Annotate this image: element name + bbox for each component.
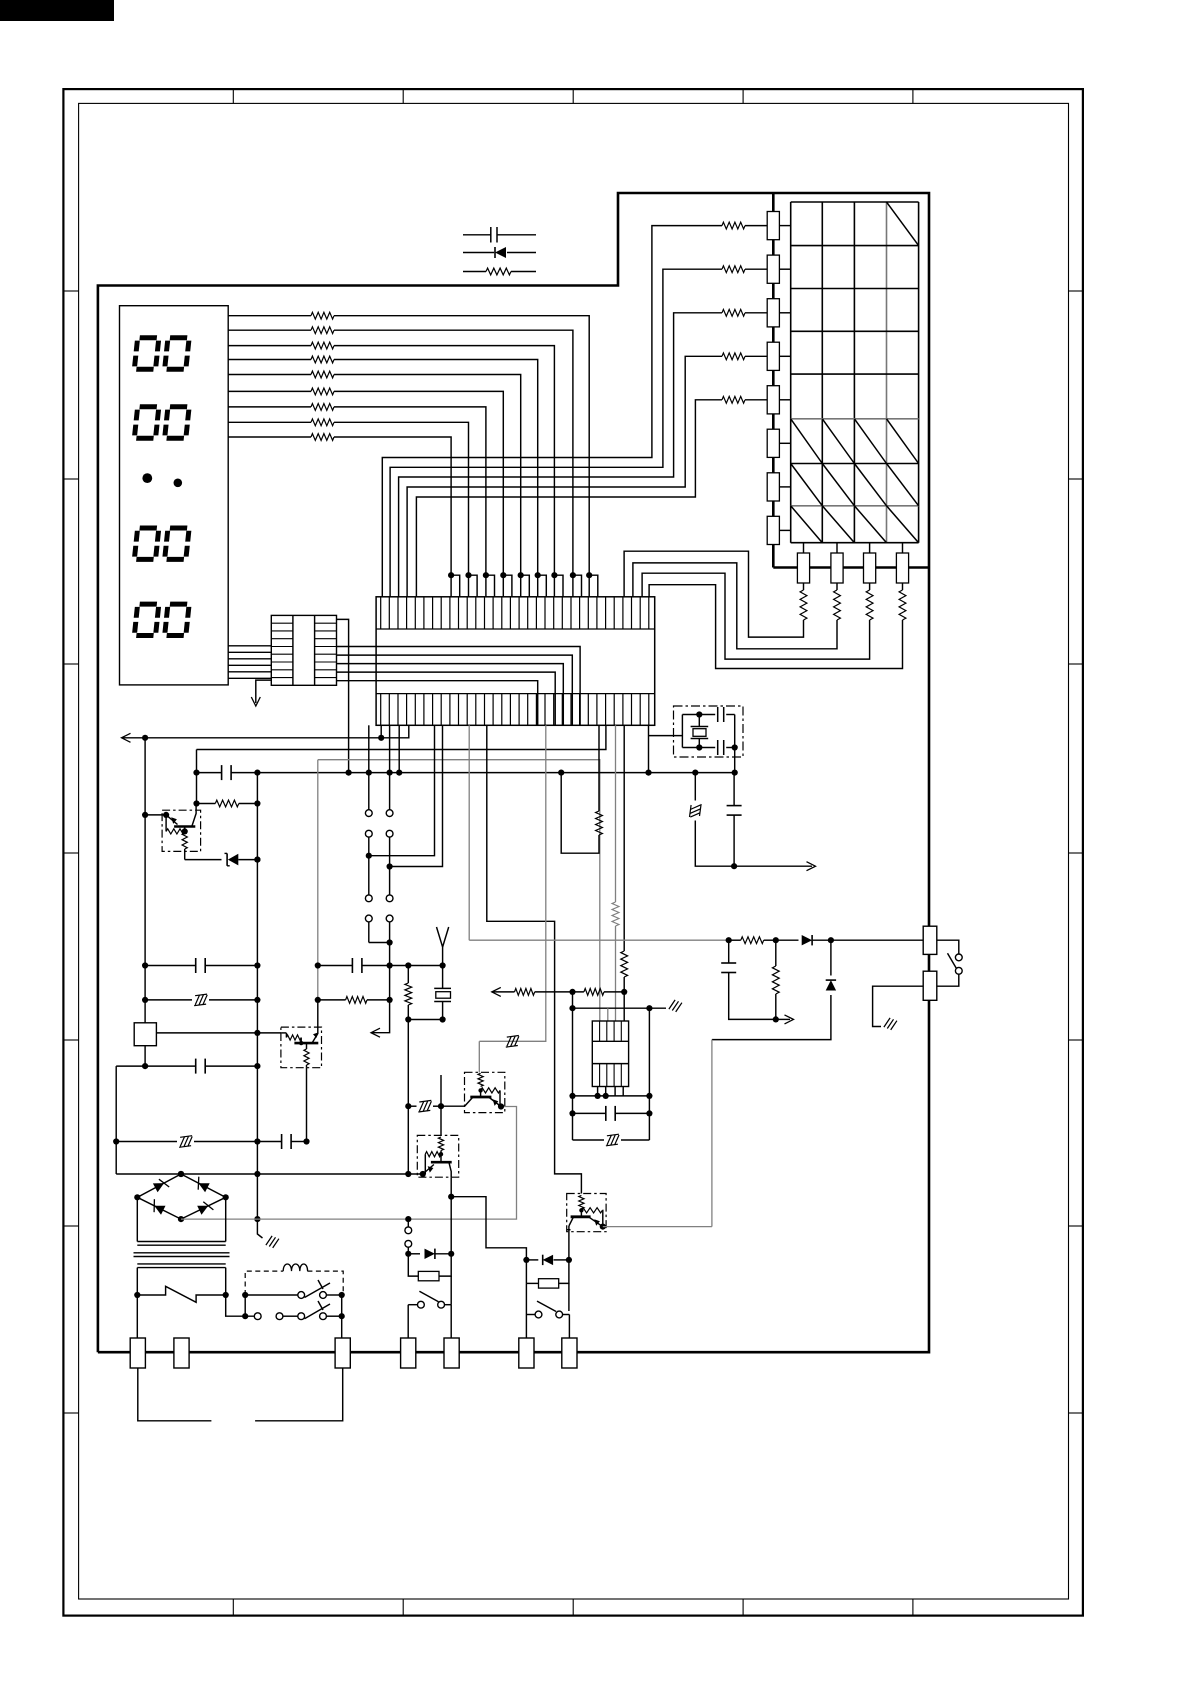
wire key row 3 with resistor R22 bbox=[745, 312, 767, 314]
wire U2 outputs to U1 bbox=[337, 647, 581, 726]
key column resistor box CB4 bbox=[896, 553, 908, 583]
wire U1 pin down x433 to switch col1 bbox=[369, 725, 435, 855]
wire U1 pin down x389 bbox=[389, 725, 391, 809]
connector contacts column1 bbox=[365, 810, 372, 817]
door switch SW3 bbox=[408, 1304, 417, 1306]
wire segment line 2 with resistor R11 bbox=[228, 329, 311, 331]
wire segment line 3 with resistor R12 bbox=[228, 345, 311, 347]
wire segment line 1 with resistor R10 bbox=[228, 315, 311, 317]
wire Q4 emitter down bbox=[568, 1226, 570, 1260]
resistor R6 bbox=[318, 999, 346, 1001]
IC U2 pin columns bbox=[292, 615, 294, 685]
wire U1 pin x615 resistor R41 bbox=[615, 725, 617, 902]
resistor R5 bbox=[197, 803, 216, 805]
node junction J4 on segment line bbox=[535, 572, 541, 578]
transistor Q4 element bbox=[579, 1195, 584, 1208]
IC U3 box bbox=[134, 1023, 156, 1046]
key matrix grid bbox=[791, 202, 919, 543]
wire key column 2 stub bbox=[836, 543, 838, 553]
connector pin CN6 bbox=[519, 1338, 534, 1368]
ground G3 below rail RR bbox=[257, 1219, 262, 1238]
wire X1 bottom with capacitor C12 bbox=[682, 747, 715, 749]
zener diode D1 bbox=[185, 859, 222, 861]
diode D4 bbox=[802, 935, 812, 945]
IC U4 pin hatching bbox=[600, 1021, 622, 1087]
wire arrow right2 bbox=[734, 865, 812, 867]
wire rail y1174 bbox=[116, 1173, 423, 1175]
ground arrow below U2 bbox=[256, 680, 271, 703]
legend capacitor symbol bbox=[463, 234, 491, 236]
capacitor C8 branch bbox=[733, 773, 735, 806]
wire box 2 to grid bbox=[779, 268, 790, 270]
wire key row 1 with resistor R20 bbox=[745, 225, 767, 227]
wire U2 top output to bus bbox=[337, 619, 349, 772]
node bus B4 junction x561 bbox=[558, 770, 564, 776]
wire IC2 top stub x607 bbox=[607, 1008, 609, 1021]
wire IRQ bus with input arrow bbox=[122, 733, 131, 742]
node bus B4 junction x399 bbox=[396, 770, 402, 776]
node junction J7 on segment line bbox=[483, 572, 489, 578]
transistor Q1 dash-dot box bbox=[162, 810, 201, 851]
varistor RV3 bbox=[116, 1141, 177, 1143]
wire U4 net top bbox=[573, 1095, 650, 1097]
transistor Q3 dash-dot box bbox=[465, 1072, 505, 1112]
key row resistor box RB8 bbox=[767, 516, 779, 544]
connector pin CN5 bbox=[444, 1338, 459, 1368]
wire U1 pin x624 resistor R42 bbox=[623, 725, 625, 951]
capacitor C7 branch bbox=[728, 940, 730, 963]
connector CN8 box bbox=[923, 926, 937, 954]
border frame inner bbox=[79, 103, 1069, 1599]
key matrix diagonals bbox=[791, 202, 919, 543]
wire F1 to interlock row2 bbox=[226, 1295, 255, 1316]
node junction J6 on segment line bbox=[500, 572, 506, 578]
wire bus B2 bbox=[197, 725, 606, 749]
display colon dot lower bbox=[174, 479, 183, 488]
connector pin CN2 bbox=[174, 1338, 189, 1368]
display digit group 3 left 0 bbox=[134, 528, 159, 559]
display colon dot upper bbox=[142, 473, 152, 483]
wire X1 left rail bbox=[681, 715, 683, 748]
wire gray bus from bridge bbox=[181, 1107, 517, 1220]
capacitor C4 bbox=[573, 1112, 606, 1114]
wire key column 1 stub bbox=[803, 543, 805, 553]
wire rail RR right rail bbox=[256, 773, 258, 1220]
IC U4 strip lines bbox=[592, 1040, 628, 1042]
transistor Q4 dash-dot box bbox=[567, 1194, 606, 1232]
wire main supply bus B4 bbox=[197, 772, 222, 774]
node junction J1 on segment line bbox=[586, 572, 592, 578]
door switch SW4 bbox=[526, 1314, 535, 1316]
node bus B4 junction x368 bbox=[366, 770, 372, 776]
wire x572 to IC2 left rail bbox=[572, 992, 574, 1096]
crystal X1 element bbox=[698, 715, 700, 727]
wire segment line 9 with resistor R18 bbox=[228, 436, 311, 438]
wire U1 pin to X1 bbox=[648, 725, 650, 772]
wire to diode D4 bbox=[776, 939, 799, 941]
wire x408 down rail bbox=[407, 1020, 409, 1175]
relay RY1 coil bbox=[283, 1264, 307, 1271]
wire key column 3 stub bbox=[869, 543, 871, 553]
resistor R10 bbox=[741, 937, 764, 944]
wire U4 block side rails bbox=[572, 1096, 574, 1140]
wire relay rail to pin3 bbox=[341, 1295, 343, 1338]
resistor R9 box bbox=[525, 1260, 527, 1284]
node bus B4 junction x695 bbox=[692, 770, 698, 776]
wire Q5 collector rail bbox=[450, 1177, 452, 1254]
display digit group 4 left 0 bbox=[134, 604, 159, 635]
wire left rail RL1 bbox=[144, 738, 146, 1023]
wire segment line 7 with resistor R16 bbox=[228, 406, 311, 408]
wire gray bus B3 bbox=[318, 760, 600, 1021]
diode D3 bbox=[526, 1259, 538, 1261]
wire gray riser x317 bbox=[317, 760, 319, 1000]
varistor RV1 bbox=[145, 999, 192, 1001]
connector pin CN1 bbox=[130, 1338, 145, 1368]
wire X1 right rail to bus bbox=[734, 715, 736, 773]
wire box 8 to grid bbox=[779, 529, 790, 531]
key column resistor box CB1 bbox=[797, 553, 809, 583]
wire gray bus stub contacts bbox=[407, 1219, 409, 1227]
node bus B4 junction x257 bbox=[254, 770, 260, 776]
wire CN9 line to ground G2 bbox=[873, 986, 924, 1026]
IC U2 body bbox=[271, 615, 336, 685]
wire x408 riser with resistor R7 bbox=[407, 966, 409, 984]
node junction J9 on segment line bbox=[448, 572, 454, 578]
display digit group 1 right 0 bbox=[165, 338, 190, 369]
connector CN9 box bbox=[923, 971, 937, 1000]
resonator X2 bbox=[442, 966, 444, 989]
wire Q5 input bbox=[441, 1105, 464, 1107]
wire X2 bottom link bbox=[408, 1019, 442, 1021]
wire key row 4 with resistor R23 bbox=[745, 355, 767, 357]
IC U4 body bbox=[592, 1021, 628, 1087]
connector contacts column2 bbox=[386, 810, 393, 817]
display DISP1 box bbox=[120, 306, 229, 685]
wire left drop x116 bbox=[115, 1066, 117, 1174]
wire U1 pin down x442 to switch col2 bbox=[390, 725, 443, 866]
legend diode symbol bbox=[463, 252, 494, 254]
IC U2 pin hatching bbox=[271, 623, 336, 677]
key matrix enclosure bottom bbox=[773, 566, 929, 569]
wire below pins jumper bbox=[138, 1368, 212, 1421]
transistor Q1 element bbox=[166, 815, 177, 825]
key matrix enclosure thick bus bbox=[772, 193, 775, 568]
wire box 5 to grid bbox=[779, 399, 790, 401]
main circuit board outline bbox=[98, 193, 929, 1352]
door switch SW5 bbox=[937, 940, 959, 954]
connector pin CN3 bbox=[335, 1338, 350, 1368]
wire U3 bottom stub bbox=[144, 1046, 146, 1066]
wire key column 1 with resistor R30 bbox=[803, 583, 805, 590]
wire T1 primary legs bbox=[136, 1268, 138, 1295]
wire U1 pin down x381 bbox=[380, 725, 382, 738]
resistor R8 box bbox=[408, 1254, 418, 1276]
wire mains leg to pin1 bbox=[136, 1295, 138, 1338]
node bus B4 junction x196 bbox=[193, 770, 199, 776]
wire box 7 to grid bbox=[779, 486, 790, 488]
wire segment line 8 with resistor R17 bbox=[228, 421, 311, 423]
IC U1 bottom pin strip line bbox=[376, 693, 655, 695]
wire SW4 right to pin7 bbox=[568, 1315, 570, 1339]
key row resistor box RB7 bbox=[767, 473, 779, 501]
wire Q2 collector down bbox=[306, 1068, 308, 1142]
wire U1 pin loop resistor R40 bbox=[598, 725, 600, 811]
border frame outer bbox=[63, 89, 1083, 1616]
node bus B4 junction x348 bbox=[346, 770, 352, 776]
black header block bbox=[0, 0, 114, 21]
wire U1 pin down x399 bbox=[398, 725, 400, 772]
wire Q4 collector gray bbox=[600, 1224, 606, 1230]
transistor Q5 dash-dot box bbox=[417, 1135, 458, 1177]
wire key row 5 with resistor R24 bbox=[745, 399, 767, 401]
wire SW3 right rail bbox=[450, 1305, 452, 1338]
connector pin CN4 bbox=[401, 1338, 416, 1368]
key row resistor box RB4 bbox=[767, 342, 779, 370]
wire key row 2 with resistor R21 bbox=[745, 268, 767, 270]
wire bridge AC legs bbox=[136, 1197, 138, 1241]
wire line y1008 to ground G1 bbox=[573, 1007, 650, 1009]
wire key column 4 with resistor R33 bbox=[902, 583, 904, 590]
wire rail RC collector riser bbox=[196, 750, 198, 804]
wire U1 pin gray x545 to Q3 bbox=[479, 725, 546, 1041]
wire box 6 to grid bbox=[779, 442, 790, 444]
wire U1 pin to bus col1 bbox=[368, 725, 370, 809]
wire Q2 emitter up bbox=[317, 1000, 319, 1027]
node junction J2 on segment line bbox=[570, 572, 576, 578]
capacitor C3 bbox=[318, 965, 353, 967]
key row resistor box RB2 bbox=[767, 255, 779, 283]
key row resistor box RB5 bbox=[767, 386, 779, 414]
wire key column 2 with resistor R31 bbox=[836, 583, 838, 590]
antenna Y stub bbox=[437, 927, 443, 966]
capacitor C2 bbox=[145, 965, 196, 967]
zener D5 branch bbox=[830, 940, 832, 975]
wire box 3 to grid bbox=[779, 312, 790, 314]
node X1 junctions bbox=[696, 711, 702, 717]
wire U1 pin down x486 to Q4 bbox=[487, 725, 582, 1193]
legend resistor symbol bbox=[463, 271, 486, 273]
wire gray riser x711 bbox=[711, 1040, 713, 1227]
varistor RV2 bbox=[573, 1139, 605, 1141]
wire segment line 4 with resistor R13 bbox=[228, 359, 311, 361]
wire box 1 to grid bbox=[779, 225, 790, 227]
wire X1 top with capacitor C11 bbox=[682, 714, 715, 716]
transistor Q2 dash-dot box bbox=[281, 1027, 322, 1068]
diode D2 bbox=[408, 1253, 420, 1255]
node RR junctions bbox=[254, 857, 260, 863]
display digit group 3 right 0 bbox=[165, 528, 190, 559]
wire D4 to connector bbox=[813, 939, 923, 941]
wire sensor line with arrow bbox=[492, 987, 501, 996]
transistor Q2 element bbox=[282, 1032, 287, 1034]
interlock switch SW2 bbox=[244, 1295, 246, 1316]
resistor R11 branch bbox=[775, 940, 777, 966]
key row resistor box RB6 bbox=[767, 429, 779, 457]
relay RY1 dashed box bbox=[245, 1271, 283, 1295]
key column resistor box CB3 bbox=[864, 553, 876, 583]
display digit group 2 left 0 bbox=[134, 407, 159, 438]
wire key column 3 with resistor R32 bbox=[869, 583, 871, 590]
wire segment line 6 with resistor R15 bbox=[228, 390, 311, 392]
connector pin CN7 bbox=[562, 1338, 577, 1368]
transistor Q3 element bbox=[478, 1073, 483, 1086]
wire U3 output line bbox=[156, 1032, 281, 1034]
display digit group 2 right 0 bbox=[165, 407, 190, 438]
node RL1 junctions bbox=[142, 812, 148, 818]
relay contact SW1 bbox=[242, 1292, 248, 1298]
wire box 4 to grid bbox=[779, 355, 790, 357]
wire column2 down to arrow line bbox=[372, 966, 390, 1033]
wire SW4 left to pin6 bbox=[525, 1283, 527, 1338]
wire Q1 emitter feed bbox=[145, 814, 166, 816]
wire U1 pin down x469 to sensor line bbox=[468, 725, 470, 940]
varistor RV4 bbox=[419, 1100, 431, 1102]
thermal cutout F1 bbox=[137, 1286, 225, 1302]
key column resistor box CB2 bbox=[831, 553, 843, 583]
IC U1 body bbox=[376, 597, 655, 726]
node junction J3 on segment line bbox=[551, 572, 557, 578]
capacitor C6 bbox=[257, 1141, 281, 1143]
varistor RV5 branch bbox=[694, 773, 696, 801]
key row resistor box RB3 bbox=[767, 299, 779, 327]
wire display to U2 inputs bbox=[228, 646, 271, 679]
fold tick marks bbox=[63, 89, 1083, 1616]
wire arrow right bbox=[776, 1018, 790, 1020]
wire Q5 top feed bbox=[440, 1075, 442, 1135]
capacitor C5 bbox=[116, 1065, 196, 1067]
transformer T1 bbox=[134, 1242, 230, 1268]
node junction J8 on segment line bbox=[465, 572, 471, 578]
wire key column 4 stub bbox=[902, 543, 904, 553]
wire segment line 5 with resistor R14 bbox=[228, 374, 311, 376]
display digit group 4 right 0 bbox=[165, 604, 190, 635]
node bus B4 junction x389 bbox=[387, 770, 393, 776]
bridge rectifier DB1 bbox=[137, 1174, 225, 1219]
wire Q5 to D3 elbow bbox=[451, 1197, 526, 1260]
IC U1 pin hatching bbox=[381, 597, 649, 726]
transistor Q5 element bbox=[438, 1137, 443, 1151]
wire U4 bottom pins bbox=[598, 1087, 624, 1096]
wire SW3 left to pin4 bbox=[407, 1305, 409, 1338]
key row resistor box RB1 bbox=[767, 212, 779, 240]
wire sensor main line bbox=[469, 939, 729, 941]
display digit group 1 left 0 bbox=[134, 338, 159, 369]
IC U1 top pin strip line bbox=[376, 628, 655, 630]
crystal X1 dash-dot box bbox=[674, 706, 744, 757]
node junction J5 on segment line bbox=[518, 572, 524, 578]
